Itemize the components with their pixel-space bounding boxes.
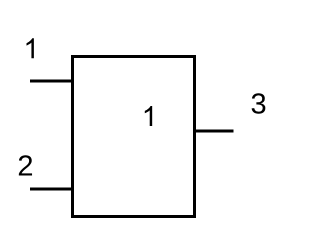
svg-text:2: 2 [17, 150, 33, 182]
pin number 1 [27, 38, 34, 58]
wire pin 2 [30, 188, 73, 191]
wire pin 1 [30, 80, 73, 83]
wire pin 3 [195, 130, 234, 133]
svg-text:3: 3 [251, 88, 267, 120]
gate body U1 [73, 57, 195, 217]
gate function label 1 [145, 106, 152, 126]
